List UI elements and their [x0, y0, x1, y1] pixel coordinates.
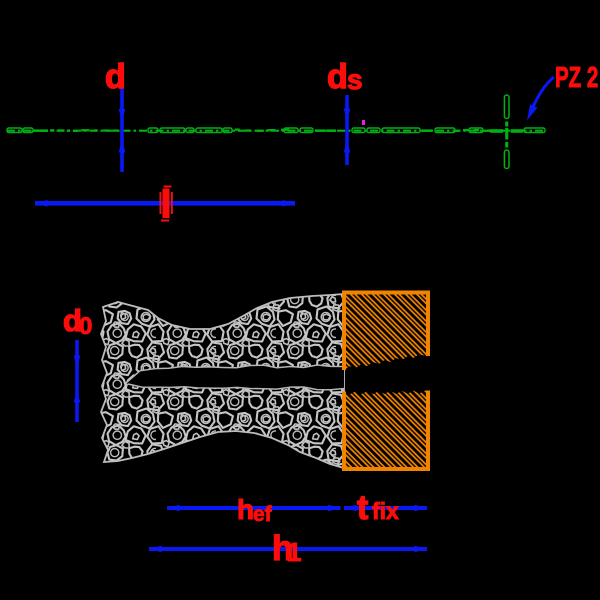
svg-text:d: d: [105, 58, 126, 96]
dimension ds line: [345, 95, 349, 165]
wire screw axis centerline: [7, 130, 545, 132]
leader line PZ2: [531, 77, 554, 111]
dimension d0 line: [75, 340, 79, 422]
dimension hef line: [167, 506, 341, 510]
svg-text:s: s: [347, 64, 363, 95]
magenta speck: [362, 120, 365, 125]
svg-text:1: 1: [287, 537, 301, 567]
screw body squashed outline segments: [7, 128, 22, 133]
label l: [163, 189, 170, 219]
crosshair horizontal thick dashes: [490, 129, 503, 133]
dimension t_fix line: [344, 506, 427, 510]
svg-text:ef: ef: [253, 503, 273, 526]
fixture bottom block hatched: [344, 391, 428, 470]
wire grit dashes: [50, 129, 54, 131]
dimension h1 line: [149, 547, 427, 551]
drilled hole in concrete: [126, 365, 344, 390]
svg-text:0: 0: [79, 313, 92, 340]
dimension d line: [120, 88, 124, 172]
svg-text:t: t: [357, 489, 368, 527]
svg-text:PZ 2: PZ 2: [555, 63, 598, 94]
head crosshair vertical centerline: [504, 95, 509, 119]
dimension l line: [35, 201, 295, 206]
thick solid dashes: [33, 129, 48, 132]
fixture top block hatched: [344, 293, 428, 371]
svg-text:fix: fix: [372, 498, 399, 524]
concrete base material section: [101, 294, 344, 468]
svg-text:h: h: [237, 494, 254, 525]
svg-text:d: d: [327, 58, 348, 96]
